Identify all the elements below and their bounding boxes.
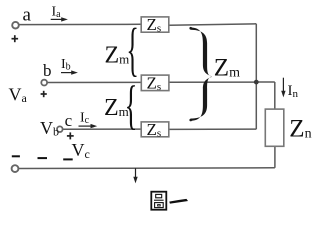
svg-text:Vb: Vb [40,118,59,139]
minus sign 1 [12,155,20,157]
wire neutral bus vertical [255,24,257,129]
junction node dot [254,80,259,85]
svg-text:Zm: Zm [214,55,240,82]
plus sign a [12,35,19,42]
minus sign 2 [38,157,48,159]
resistor Zs box phase c [141,120,169,140]
svg-text:a: a [23,4,32,25]
minus sign 3 [63,158,72,160]
plus sign b [41,91,47,97]
svg-text:In: In [288,83,299,100]
plus sign c [67,132,74,139]
current Ib arrow [61,70,78,74]
wire neutral branch horizontal [256,81,275,83]
mutual impedance brace b-c [125,76,138,136]
svg-text:{: { [126,16,138,82]
wire row a left [19,23,142,25]
terminal negative bottom [12,165,19,172]
wire bottom rail [18,167,275,170]
wire row b left [47,81,141,83]
current Ia arrow [51,17,68,21]
mutual impedance brace a-b [126,16,138,82]
wire row c right [169,128,256,130]
svg-text:Ia: Ia [52,4,62,19]
terminal b [41,80,47,86]
wire row c left [63,128,141,130]
ground arrow [133,168,137,183]
resistor Zs box phase b [141,73,169,93]
svg-text:Zn: Zn [289,116,311,143]
wire Zn bottom [274,146,276,168]
wire neutral branch vertical to Zn [274,82,276,109]
svg-text:Ib: Ib [61,57,71,73]
wire row a right [169,24,256,25]
resistor Zn box [265,109,284,146]
svg-text:c: c [65,111,73,130]
svg-text:Vc: Vc [72,140,90,161]
svg-text:Va: Va [9,84,28,105]
terminal a [12,22,19,29]
mutual impedance big brace right [190,27,212,120]
terminal c [57,126,63,132]
svg-text:b: b [43,61,52,80]
resistor Zs box phase a [141,15,169,35]
svg-text:Ic: Ic [80,110,90,126]
wire row b right [169,81,256,83]
current Ic arrow [79,124,98,128]
caption character tu (figure) [151,192,166,210]
svg-text:Zm: Zm [105,43,130,69]
caption character yi (one) [170,199,188,203]
current In arrow [281,78,285,98]
